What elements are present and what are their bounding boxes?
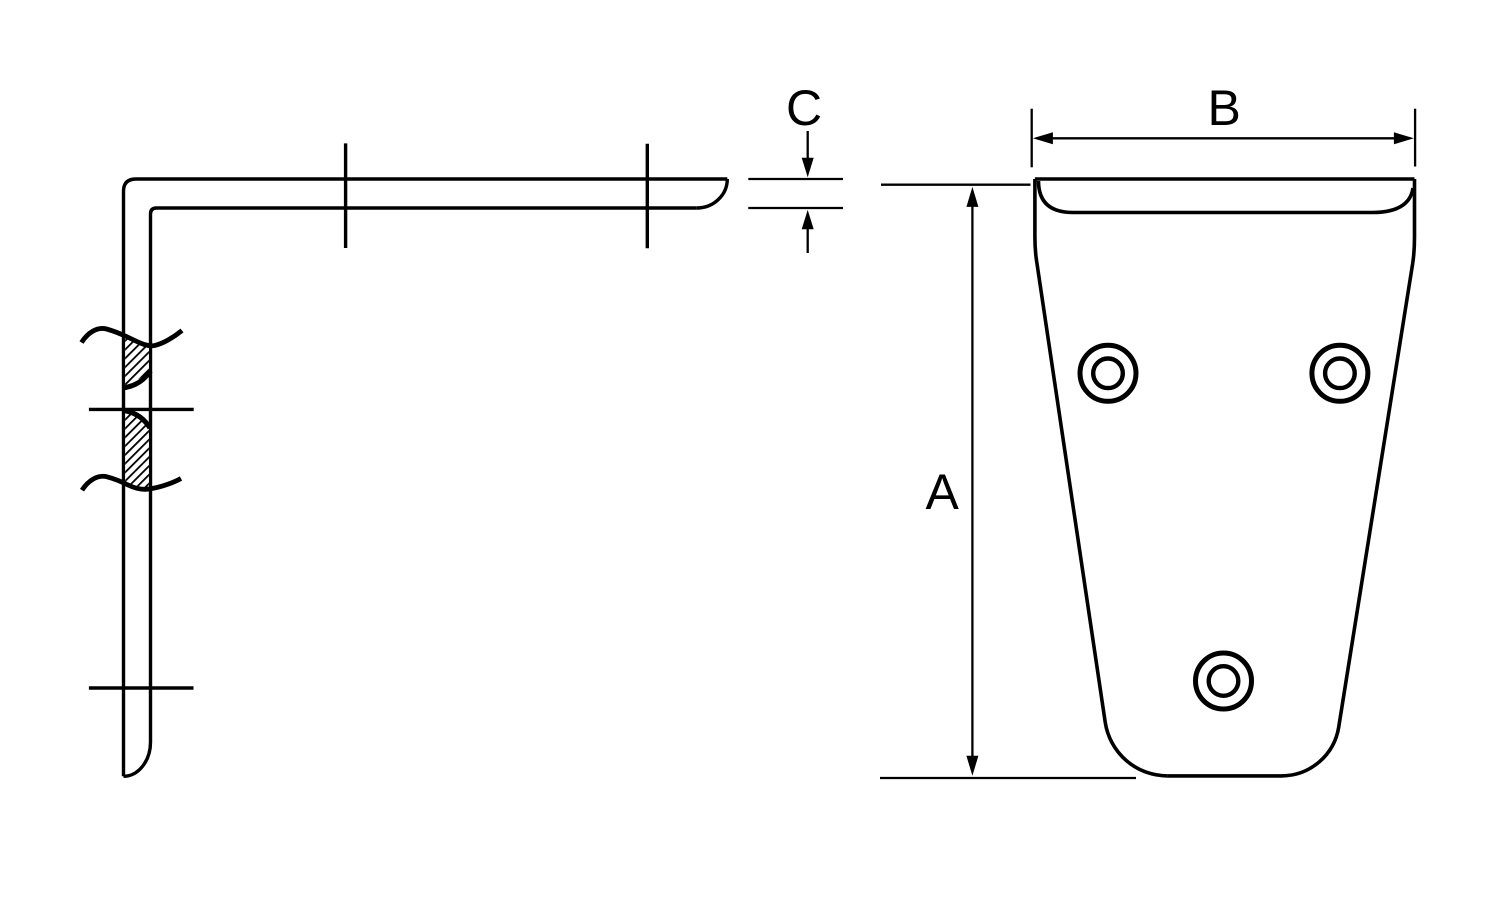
svg-text:C: C [786, 80, 822, 136]
svg-text:A: A [926, 464, 960, 520]
svg-text:B: B [1208, 80, 1241, 136]
